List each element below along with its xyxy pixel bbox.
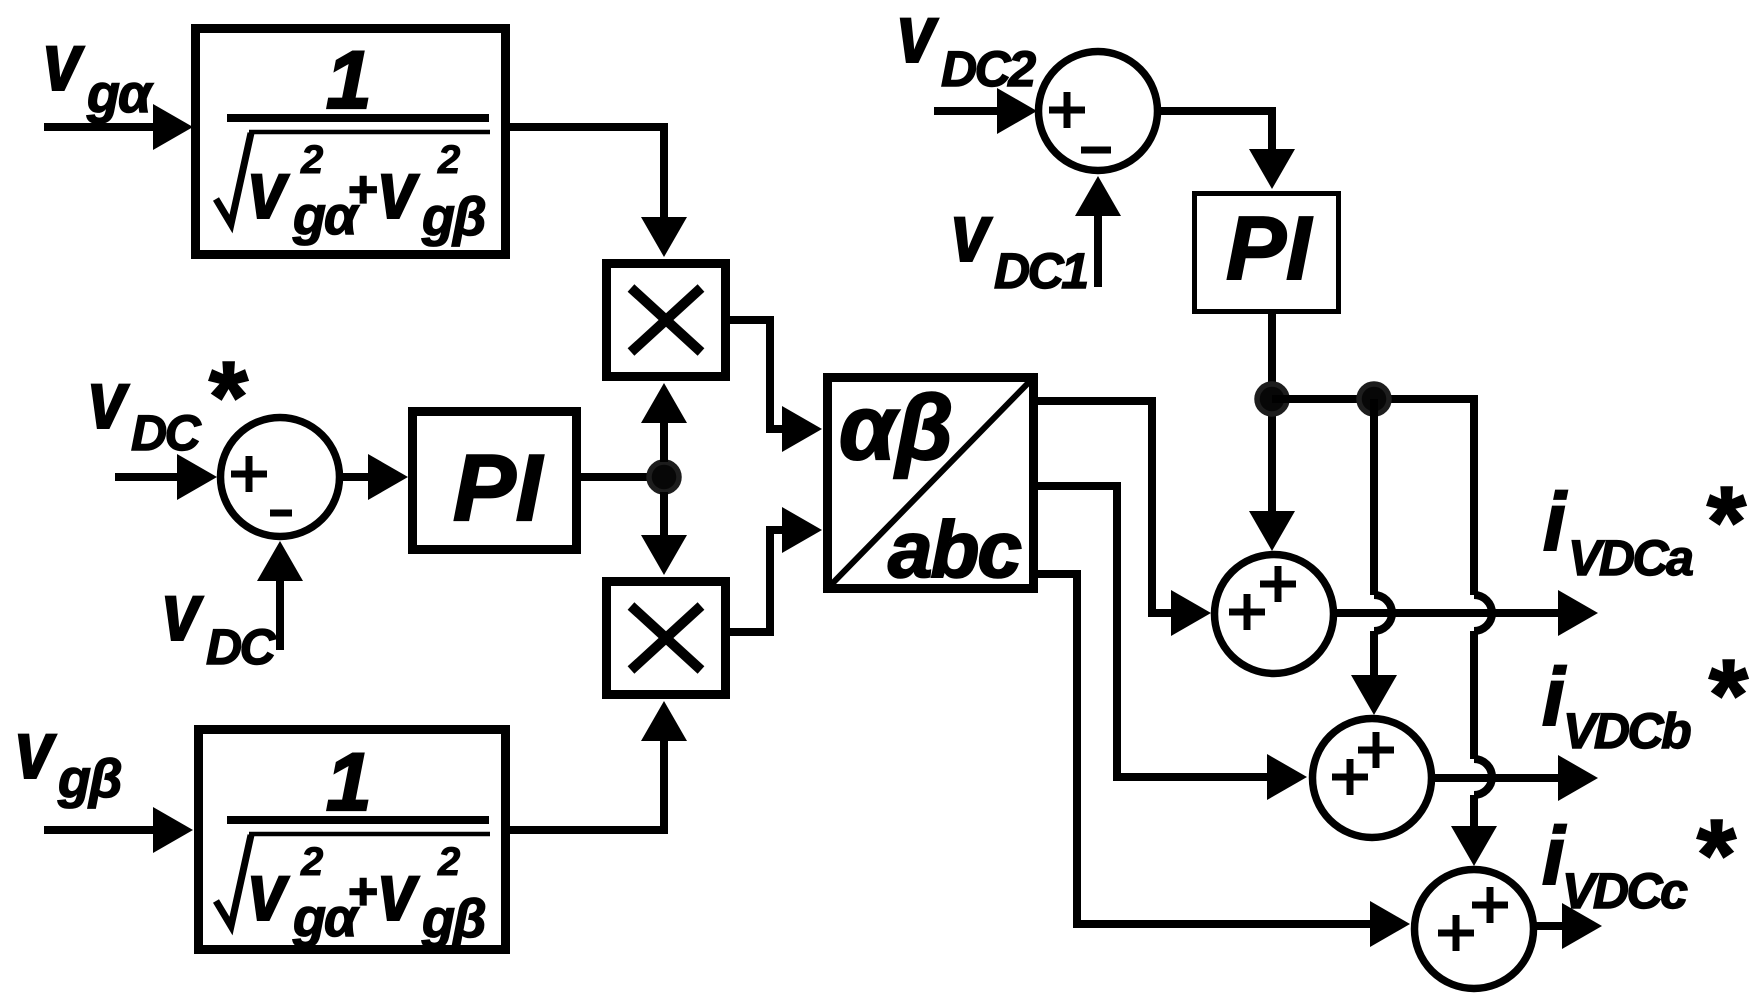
node dot J3 [1359,384,1389,414]
svg-text:abc: abc [888,505,1021,594]
hop over S3 output [1474,595,1492,631]
svg-text:v: v [248,145,290,236]
wire M2 output to ab/abc block [726,530,784,632]
svg-text:i: i [1543,477,1568,568]
label v_DC2 [897,0,1036,97]
svg-text:PI: PI [1226,199,1313,299]
svg-text:v: v [951,188,993,279]
block N1 1/sqrt(vga^2+vgb^2) [196,29,506,255]
arrowhead v_ga into block N1 [153,104,193,150]
summing junction S3 [1215,555,1334,674]
wire U1 out2 to S4 [1034,486,1268,777]
svg-text:gα: gα [86,64,154,124]
block N2 1/sqrt(vga^2+vgb^2) [199,730,506,950]
wire v_gb input [44,826,158,834]
wire between hops [1470,631,1478,759]
summing junction S2 [1039,52,1158,171]
wire right branch down at x=1474 [1470,399,1474,595]
wire v_DC1 input [1094,214,1102,287]
label v_DC* [88,341,248,461]
arrowhead S5 output [1562,903,1602,949]
label i_VDCc* [1542,799,1736,919]
svg-text:1: 1 [326,35,372,126]
node dot J1 [649,462,679,492]
svg-text:PI: PI [453,435,544,540]
arrowhead into S3 top [1249,511,1295,551]
svg-text:gβ: gβ [57,749,121,809]
wire v_ga input [44,123,158,131]
svg-text:DC: DC [131,405,202,461]
wire PI2 down to S3 [1268,314,1276,514]
label i_VDCa* [1543,466,1746,586]
summing junction S5 [1415,870,1534,989]
arrowhead into M1 bottom [641,383,687,423]
PI block PI2 [1195,194,1339,312]
S2 plus sign [1049,92,1085,128]
arrowhead into summing junction S1 [177,454,217,500]
arrowhead into M2 top [641,535,687,575]
svg-text:DC: DC [206,619,277,675]
svg-text:1: 1 [326,737,372,828]
label v_gb [15,705,121,809]
S4 plus signs [1332,732,1394,795]
wire N2 output up to M2 [505,741,664,830]
svg-text:*: * [1705,639,1748,751]
arrowhead into S5 top [1451,826,1497,866]
S2 minus sign [1081,147,1111,154]
wire M1 output to ab/abc block [726,320,784,429]
S1 minus sign [270,510,292,517]
wire N1 output to multiplier M1 [505,127,664,222]
svg-text:*: * [1703,466,1746,578]
multiplier M2 [607,582,726,695]
wire S1 to PI1 [343,473,372,481]
arrowhead M2 out into U1 [782,507,822,553]
svg-text:DC1: DC1 [994,243,1087,299]
wire U1 out1 to S3 [1034,401,1172,613]
S1 plus sign [231,456,267,492]
summing junction S4 [1313,719,1432,838]
wire branch J2 to right [1272,395,1474,403]
svg-text:VDCc: VDCc [1562,863,1688,919]
svg-text:2: 2 [437,138,460,182]
hop over S4 output [1474,759,1492,795]
node dot J2 [1257,384,1287,414]
label v_DC [162,567,277,675]
wire hop to S4 [1370,631,1378,678]
wire PI1 to node [577,473,652,481]
wire S2 to PI2 [1155,111,1272,151]
svg-text:2: 2 [300,840,323,884]
wire S3 output [1334,609,1560,617]
arrowhead into S1 bottom [257,541,303,581]
arrowhead into PI1 [368,454,408,500]
wire S5 output [1533,922,1562,930]
wire hop to S5 [1470,795,1478,828]
svg-text:2: 2 [300,138,323,182]
arrowhead into M2 bottom [641,701,687,741]
arrowhead into summing junction S2 [997,88,1037,134]
wire v_DC feedback input [276,578,284,650]
wire U1 out3 to S5 [1034,574,1370,924]
svg-text:αβ: αβ [839,377,953,479]
svg-text:2: 2 [437,840,460,884]
svg-text:+: + [347,161,377,219]
svg-text:VDCa: VDCa [1568,530,1693,586]
svg-text:v: v [162,567,204,658]
summing junction S1 [221,418,340,537]
arrowhead M1 out into U1 [782,406,822,452]
svg-text:v: v [15,705,57,796]
wire v_DC2 input [934,107,1000,115]
arrowhead into M1 top [641,217,687,257]
arrowhead into S4 top [1351,675,1397,715]
label v_ga [43,17,154,124]
wire node down to M2 [660,492,668,539]
svg-text:v: v [248,847,290,938]
S5 plus signs [1438,887,1508,951]
svg-text:v: v [88,355,130,446]
multiplier M1 [607,264,726,377]
arrowhead into S3 left [1171,590,1211,636]
wire v_DC* input [115,473,182,481]
arrowhead S4 output [1558,755,1598,801]
label v_DC1 [951,188,1087,299]
svg-text:*: * [1693,799,1736,911]
S3 plus signs [1229,566,1296,630]
wire node up to M1 [660,421,668,462]
arrowhead into S4 left [1267,754,1307,800]
hop over S3 output [1374,595,1392,631]
svg-text:v: v [378,847,420,938]
PI block PI1 [413,412,577,550]
arrowhead into S5 left [1370,901,1410,947]
svg-text:gβ: gβ [421,889,485,949]
wire S4 output [1432,774,1560,782]
transform block U1 ab/abc [825,375,1036,594]
arrowhead into block N2 [153,807,193,853]
arrowhead into S2 bottom [1075,176,1121,216]
arrowhead S3 output [1558,590,1598,636]
arrowhead into PI2 top [1249,149,1295,189]
svg-text:VDCb: VDCb [1563,703,1691,759]
wire J3 down [1370,399,1378,595]
svg-text:v: v [897,0,939,80]
svg-text:v: v [43,17,85,108]
label i_VDCb* [1542,639,1748,759]
svg-text:v: v [378,145,420,236]
svg-text:DC2: DC2 [941,41,1036,97]
svg-text:gβ: gβ [421,187,485,247]
svg-text:+: + [347,863,377,921]
